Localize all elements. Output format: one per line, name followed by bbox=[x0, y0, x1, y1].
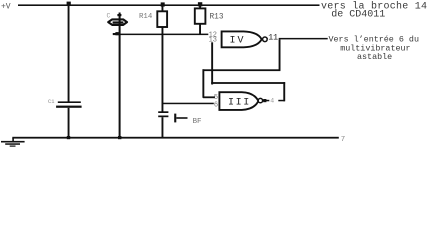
resistor R13 bbox=[195, 8, 206, 23]
svg-text:R13: R13 bbox=[210, 14, 224, 22]
pin label 4 (over wire) bbox=[269, 97, 278, 103]
capacitor C1 bottom plate bbox=[56, 106, 82, 108]
pin label 11 (over wire) bbox=[268, 33, 279, 40]
node dot: rail / R14 branch bbox=[161, 2, 165, 6]
node dot: rail / R13 branch bbox=[198, 2, 202, 6]
wire: gate IV output bbox=[267, 38, 328, 40]
ground symbol bar 3 bbox=[10, 146, 16, 147]
wire: R14 down to coupling capacitor bbox=[162, 27, 164, 112]
microphone C body (flattened hexagon) bbox=[108, 19, 127, 25]
wire: pin 6 line from capacitor node to gate III bbox=[162, 103, 214, 105]
coupling capacitor bottom plate bbox=[158, 116, 168, 118]
wire: feedback down to gate III pin 5 bbox=[202, 69, 204, 98]
svg-text:11: 11 bbox=[268, 34, 278, 43]
wire: +V rail to resistor R14 bbox=[162, 5, 164, 12]
wire: C1 to ground rail bbox=[68, 108, 70, 138]
wire stub left of mic node bbox=[113, 33, 116, 34]
wire: +V rail down to capacitor C1 bbox=[68, 5, 70, 102]
svg-text:de CD4011: de CD4011 bbox=[331, 9, 385, 21]
svg-text:astable: astable bbox=[357, 52, 392, 62]
wire: R13 down to pin-12 wire bbox=[199, 24, 201, 35]
node dot: mic output on pin-12 wire bbox=[115, 32, 118, 35]
capacitor C1 top plate bbox=[58, 101, 81, 103]
wire: input node to gate IV pin 12 bbox=[113, 34, 209, 36]
svg-text:+V: +V bbox=[1, 2, 11, 11]
wire: feedback horizontal under gate IV bbox=[203, 69, 281, 71]
node dot: gate III output bbox=[263, 99, 266, 102]
gate III output bubble bbox=[258, 98, 262, 102]
node dot: ground rail / C1 bbox=[67, 136, 70, 139]
wire: microphone stem down to ground rail bbox=[119, 13, 121, 138]
wire: ground rail bbox=[12, 137, 339, 139]
svg-text:III: III bbox=[228, 98, 251, 109]
ground symbol stem bbox=[12, 138, 14, 141]
wire: +V rail to resistor R13 bbox=[199, 5, 201, 9]
svg-text:R14: R14 bbox=[139, 13, 153, 21]
svg-text:4: 4 bbox=[270, 98, 274, 105]
wire: feedback from IV output down bbox=[279, 39, 281, 70]
node dot: rail / C1 branch bbox=[67, 2, 71, 6]
wire: feedback up to gate IV pin 13 bbox=[211, 42, 213, 84]
svg-text:7: 7 bbox=[341, 136, 345, 144]
wire: feedback horizontal above gate III bbox=[211, 82, 285, 84]
ground symbol bar 1 bbox=[1, 141, 25, 143]
ground symbol bar 2 bbox=[5, 143, 20, 145]
coupling capacitor top plate bbox=[158, 111, 168, 113]
svg-text:C1: C1 bbox=[48, 99, 54, 105]
svg-text:IV: IV bbox=[230, 36, 246, 47]
BF output terminal bar bbox=[174, 114, 176, 123]
op gate U:III body (NAND) bbox=[219, 92, 258, 110]
op gate U:IV body (NAND) bbox=[222, 31, 262, 47]
wire: gate III output bbox=[263, 100, 285, 102]
wire: stub to pin 5 bbox=[203, 96, 215, 98]
BF output terminal lead bbox=[176, 117, 187, 119]
microphone C top tip bbox=[117, 14, 121, 16]
svg-text:6: 6 bbox=[214, 102, 218, 110]
svg-text:C: C bbox=[107, 13, 111, 20]
wire: coupling capacitor to ground rail bbox=[162, 117, 164, 138]
resistor R14 bbox=[157, 11, 167, 27]
svg-text:BF: BF bbox=[193, 118, 203, 126]
wire: feedback from III output up bbox=[283, 82, 285, 101]
wire: +V supply rail bbox=[18, 4, 320, 6]
gate IV output bubble bbox=[263, 37, 268, 42]
node dot: ground rail / mic bbox=[118, 136, 121, 139]
microphone C inner plate bbox=[113, 21, 124, 23]
